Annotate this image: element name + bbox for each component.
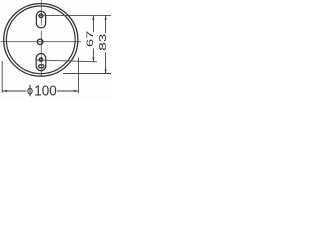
phi100 right extension line: [78, 58, 80, 94]
arrow 67 down: [92, 57, 94, 61]
phi100 left extension line: [1, 61, 3, 93]
phi100 dimension line right segment: [57, 90, 79, 92]
center hole: [37, 39, 43, 45]
vertical centerline lower segment: [40, 31, 42, 76]
extension line 83 bottom: [63, 73, 111, 75]
svg-text:100: 100: [34, 83, 57, 100]
vertical centerline upper segment: [40, 0, 42, 25]
arrow 67 up: [92, 15, 94, 19]
extension line 67 bottom: [35, 60, 97, 62]
horizontal centerline: [1, 41, 82, 43]
dimension line 67 (lower segment): [92, 48, 94, 61]
arrow 83 down: [105, 69, 107, 73]
svg-text:67: 67: [84, 31, 95, 47]
bottom mounting hole: [39, 58, 42, 61]
dimension line 83 (lower segment): [105, 52, 107, 73]
top mounting hole: [39, 14, 43, 18]
phi symbol stroke: [29, 85, 31, 97]
arrow 83 up: [105, 15, 107, 19]
arrow phi100 right: [74, 90, 79, 92]
top extension line (crosshair to dims): [38, 14, 111, 16]
phi100 dimension line left segment: [2, 90, 26, 92]
dimension line 83 (upper segment): [105, 15, 107, 33]
svg-text:83: 83: [97, 34, 109, 51]
arrow phi100 left: [2, 90, 7, 92]
bottom keyhole slot outline: [36, 54, 46, 71]
inner circle: [6, 6, 75, 74]
bottom small slot: [39, 65, 44, 68]
top keyhole slot outline: [36, 11, 45, 28]
dimension line 67 (upper segment): [92, 15, 94, 32]
phi symbol circle: [28, 88, 32, 94]
outer circle (canopy rim, phi 100): [4, 4, 78, 77]
